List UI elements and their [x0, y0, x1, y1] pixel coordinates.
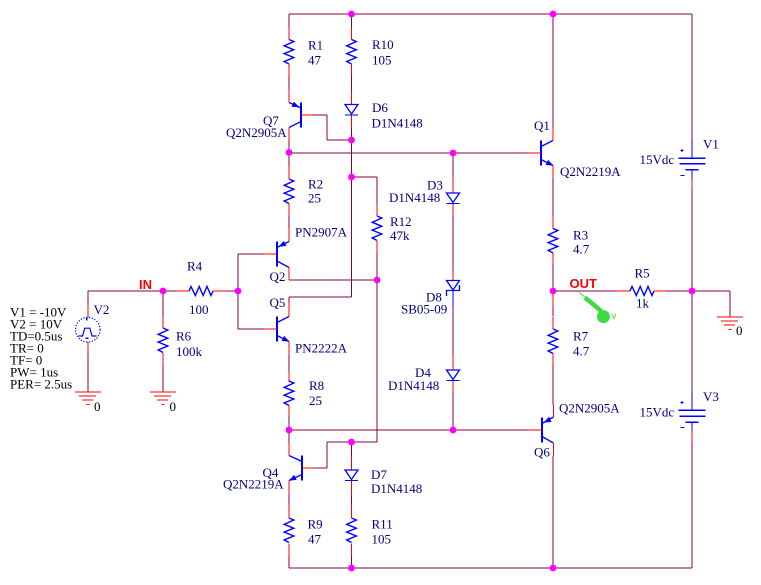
wire bias column D6 to Q5 collector — [351, 140, 353, 297]
wire OUT node to R5 — [553, 290, 617, 292]
wire R2 to Q2 emitter — [288, 216, 290, 228]
svg-text:Q2N2905A: Q2N2905A — [226, 125, 287, 140]
wire V2 bottom to ground — [87, 354, 89, 392]
svg-text:D1N4148: D1N4148 — [372, 116, 423, 131]
transistor Q4 (NPN Q2N2219A) — [223, 443, 314, 494]
junction dot R12 / Q2 collector — [374, 277, 381, 284]
svg-text:0: 0 — [170, 399, 177, 414]
resistor R5 — [617, 266, 666, 311]
wire rail to R2 — [288, 153, 290, 166]
junction dot Q7 collector node — [286, 149, 293, 156]
wire R1 to Q7 emitter — [288, 76, 290, 90]
wire Q4 base jog — [326, 442, 328, 468]
junction dot top rail / Q1 — [550, 11, 557, 18]
ground at output rail — [717, 317, 743, 338]
wire IN node to R6 — [162, 291, 164, 316]
wire R3 to OUT node — [552, 264, 554, 291]
junction dot D7 anode — [348, 439, 355, 446]
wire R12 bottom to Q2 collector node — [376, 253, 378, 280]
svg-text:100k: 100k — [176, 344, 203, 359]
transistor Q7 (PNP Q2N2905A) — [226, 90, 313, 140]
transistor Q2 (PNP PN2907A) — [263, 225, 348, 285]
svg-text:R11: R11 — [372, 517, 393, 532]
wire Q5 collector run — [289, 296, 352, 298]
wire R5 to V rail — [666, 290, 692, 292]
svg-text:PN2222A: PN2222A — [295, 341, 348, 356]
resistor R4 — [176, 259, 226, 318]
wire OUT node down — [552, 291, 554, 295]
resistor R1 — [284, 27, 323, 76]
wire V+ rail to Q1 base — [289, 152, 527, 154]
svg-text:1k: 1k — [636, 296, 650, 311]
wire Q1 emitter to R3 — [552, 178, 554, 216]
resistor R3 — [548, 216, 590, 264]
svg-text:PER= 2.5us: PER= 2.5us — [10, 377, 72, 392]
wire R9 to bottom rail — [288, 556, 290, 568]
svg-text:4.7: 4.7 — [573, 344, 590, 359]
wire V1 to node — [691, 190, 693, 291]
svg-text:Q2N2219A: Q2N2219A — [560, 164, 621, 179]
wire Q5 collector up — [288, 297, 290, 302]
wire lower rail R8 to Q6 base — [289, 429, 528, 431]
svg-text:105: 105 — [372, 53, 392, 68]
svg-text:105: 105 — [372, 532, 392, 547]
wire Q5 emitter to R8 — [288, 355, 290, 372]
wire top +15V rail — [289, 13, 692, 15]
junction dot R12 tap — [348, 174, 355, 181]
junction dot rail / D3 — [450, 150, 457, 157]
V2 stimulus parameters text — [10, 305, 72, 392]
resistor R6 — [158, 316, 202, 365]
wire rail to Q4 collector — [288, 430, 290, 443]
svg-text:V1: V1 — [703, 137, 719, 152]
transistor Q5 (NPN PN2222A) — [264, 295, 348, 356]
junction dot R11 / bottom rail — [348, 565, 355, 572]
svg-text:25: 25 — [309, 393, 322, 408]
resistor R12 — [372, 204, 411, 253]
wire Q6 collector to bottom rail — [552, 456, 554, 568]
wire D7 to R11 — [351, 495, 353, 505]
svg-text:R7: R7 — [573, 329, 589, 344]
diode D7 (D1N4148) — [345, 457, 422, 496]
svg-text:SB05-09: SB05-09 — [401, 302, 447, 317]
wire V2 to IN node — [88, 290, 163, 292]
svg-text:Q5: Q5 — [270, 295, 286, 310]
svg-text:Q1: Q1 — [534, 118, 550, 133]
wire Q4 emitter to R9 — [288, 494, 290, 505]
resistor R9 — [284, 505, 322, 556]
wire node to R12 — [352, 176, 378, 178]
svg-text:R5: R5 — [635, 266, 650, 281]
svg-text:Q2N2905A: Q2N2905A — [559, 401, 620, 416]
resistor R7 — [548, 295, 590, 366]
svg-text:D1N4148: D1N4148 — [389, 190, 440, 205]
transistor Q6 (PNP Q2N2905A) — [528, 401, 620, 460]
wire to Q5 base — [238, 328, 264, 330]
svg-text:v: v — [612, 311, 617, 322]
wire R1 top — [288, 14, 290, 27]
svg-text:25: 25 — [308, 191, 321, 206]
svg-text:100: 100 — [189, 302, 209, 317]
svg-text:OUT: OUT — [570, 276, 598, 291]
junction dot OUT node — [550, 288, 557, 295]
svg-text:R3: R3 — [573, 228, 588, 243]
svg-text:D1N4148: D1N4148 — [388, 378, 439, 393]
svg-text:R2: R2 — [308, 177, 323, 192]
wire top rail to V1 — [691, 14, 693, 140]
svg-text:R12: R12 — [390, 214, 412, 229]
junction dot Q7 base / D6 — [348, 137, 355, 144]
svg-text:Q6: Q6 — [534, 445, 550, 460]
diode D3 (D1N4148) — [389, 178, 460, 216]
transistor Q1 (NPN Q2N2219A) — [527, 118, 621, 179]
wire R6 to ground — [162, 365, 164, 392]
wire R10 to D6 — [351, 75, 353, 90]
resistor R11 — [347, 505, 393, 556]
wire V rail node to right ground — [692, 290, 730, 292]
junction dot R8 / lower rail — [286, 427, 293, 434]
resistor R10 — [347, 27, 394, 75]
voltage probe marker at OUT — [579, 292, 617, 323]
svg-text:PN2907A: PN2907A — [295, 225, 348, 240]
wire R4 to base node — [226, 290, 238, 292]
svg-text:R6: R6 — [176, 329, 192, 344]
svg-text:R4: R4 — [187, 259, 203, 274]
wire Q1 collector from top rail — [552, 14, 554, 127]
junction dot top rail / R10 — [348, 11, 355, 18]
pulse source V2 — [76, 302, 110, 354]
DC source V3 15Vdc — [640, 389, 719, 442]
svg-text:47: 47 — [308, 532, 322, 547]
svg-text:D1N4148: D1N4148 — [371, 481, 422, 496]
svg-text:R1: R1 — [308, 38, 323, 53]
wire Q7 base jog — [313, 114, 327, 116]
wire R7 to Q6 emitter — [552, 366, 554, 406]
wire R10 top — [351, 14, 353, 27]
wire D8 to D4 — [452, 307, 454, 355]
wire R8 to lower rail — [288, 416, 290, 430]
diode D4 (D1N4148) — [388, 355, 460, 393]
svg-text:0: 0 — [94, 399, 101, 414]
svg-text:R10: R10 — [372, 37, 394, 52]
svg-text:R9: R9 — [308, 517, 323, 532]
svg-text:15Vdc: 15Vdc — [640, 152, 675, 167]
svg-text:D6: D6 — [372, 100, 388, 115]
svg-text:47k: 47k — [390, 228, 410, 243]
wire D7 row — [327, 441, 377, 443]
junction dot Q6 / bottom rail — [550, 565, 557, 572]
svg-text:Q2: Q2 — [270, 269, 286, 284]
svg-text:0: 0 — [736, 323, 743, 338]
wire Q7 collector to rail — [288, 140, 290, 153]
wire Q2 collector run — [289, 279, 377, 281]
wire node to V3 — [691, 291, 693, 392]
wire D4 to lower rail — [452, 393, 454, 430]
svg-text:D7: D7 — [371, 467, 387, 482]
DC source V1 15Vdc — [640, 137, 719, 191]
wire V2 top — [87, 291, 89, 305]
junction dot R5 / V rail — [689, 288, 696, 295]
wire node to D7 anode — [351, 442, 353, 457]
wire D3 to D8 — [452, 215, 454, 271]
svg-text:47: 47 — [308, 53, 322, 68]
junction dot D4 / lower rail — [450, 427, 457, 434]
wire bottom -15V rail — [289, 567, 692, 569]
svg-text:Q2N2219A: Q2N2219A — [223, 477, 284, 492]
resistor R8 — [284, 372, 324, 416]
wire base column — [237, 254, 239, 329]
wire R11 to bottom rail — [351, 556, 353, 568]
svg-text:IN: IN — [139, 277, 152, 292]
junction dot IN node — [160, 288, 167, 295]
ground under V2 — [75, 392, 101, 414]
svg-text:4.7: 4.7 — [573, 242, 590, 257]
junction dot R4 / base column — [235, 288, 242, 295]
wire to Q2 base — [238, 253, 263, 255]
resistor R2 — [284, 166, 323, 216]
diode D8 (Schottky SB05-09) — [401, 271, 460, 317]
wire V3 to bottom rail — [691, 442, 693, 568]
ground under R6 — [150, 392, 176, 414]
svg-text:V3: V3 — [703, 389, 719, 404]
wire bias column to D7 row — [376, 280, 378, 442]
wire D3 chain top — [452, 153, 454, 178]
svg-text:15Vdc: 15Vdc — [640, 405, 675, 420]
svg-text:R8: R8 — [309, 378, 324, 393]
wire D6 to node — [351, 128, 353, 140]
svg-text:V2: V2 — [94, 302, 110, 317]
wire IN node to R4 — [163, 290, 176, 292]
diode D6 (D1N4148) — [345, 90, 423, 131]
